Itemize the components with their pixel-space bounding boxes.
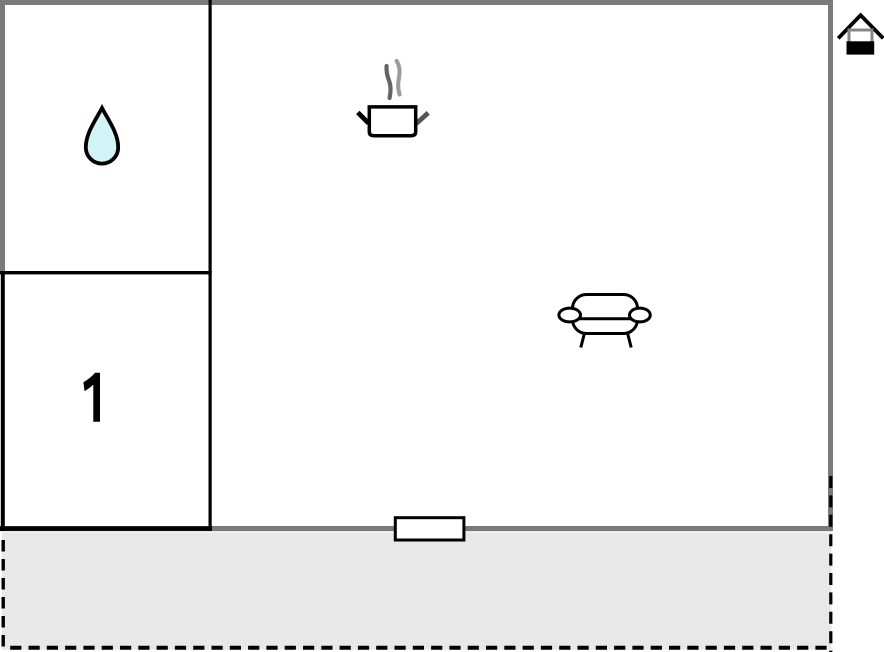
- wall outer bottom: [0, 526, 832, 531]
- stove pot steam right: [397, 61, 400, 95]
- terrace area fill: [2, 533, 832, 650]
- house icon roof: [838, 15, 883, 38]
- sofa armrest right: [630, 308, 651, 322]
- stove pot left handle: [358, 112, 369, 123]
- wall room1 bottom black: [0, 526, 212, 531]
- stove pot body: [369, 107, 415, 136]
- sofa armrest left: [559, 308, 581, 322]
- wall outer left upper: [0, 0, 5, 271]
- wall room1 left black: [1, 271, 5, 531]
- stove pot steam left: [387, 66, 391, 98]
- terrace dashed border left: [2, 540, 5, 652]
- wall outer top: [0, 0, 833, 5]
- wall outer right: [828, 0, 833, 531]
- stove pot right handle: [416, 113, 428, 124]
- sofa legs: [581, 333, 631, 348]
- wall room divider horizontal: [0, 271, 212, 274]
- sofa body: [573, 295, 638, 334]
- house icon square gray outline: [849, 30, 872, 53]
- sofa seat line: [575, 317, 635, 320]
- room label 1: [83, 373, 100, 422]
- terrace dashed border bottom: [10, 646, 832, 650]
- wall room divider vertical: [209, 0, 212, 531]
- terrace dashed border right: [829, 476, 832, 652]
- door window rect on bottom wall: [395, 518, 464, 540]
- house icon bottom black half: [847, 41, 875, 54]
- water drop icon (bathroom): [86, 108, 118, 164]
